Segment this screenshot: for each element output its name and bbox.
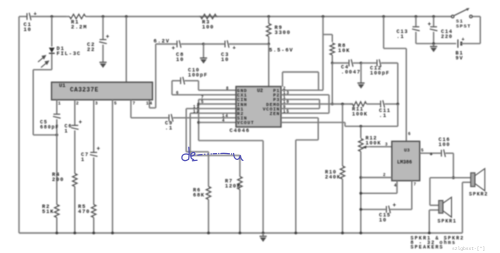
- wire C12 drop to C11 node: [397, 63, 399, 104]
- svg-text:+: +: [462, 37, 465, 43]
- wire U2 pin13 row: [281, 94, 329, 96]
- wire U2 VCOIN row: [281, 108, 320, 110]
- wire U2 pin1 row: [281, 98, 320, 100]
- wire pin7 down: [130, 100, 132, 118]
- node C4/C12/ground: [360, 62, 363, 65]
- wire to U2 CX1: [172, 94, 236, 96]
- battery B1: [458, 37, 465, 48]
- svg-text:C9.1: C9.1: [165, 121, 173, 132]
- wire wiper to U3 pin3: [370, 146, 392, 148]
- capacitor C9: [169, 114, 173, 122]
- wire supply elbow horizontal: [384, 47, 407, 49]
- wire left rail: [18, 17, 20, 234]
- wire C6 to R4: [74, 130, 76, 173]
- wire to U2 R2: [190, 112, 236, 114]
- junction pin2 ground tap: [359, 176, 362, 179]
- wire ground stem main: [262, 233, 264, 236]
- svg-text:4: 4: [222, 120, 225, 124]
- svg-text:7: 7: [201, 97, 204, 101]
- junction R10 top: [341, 103, 344, 106]
- svg-text:2: 2: [383, 174, 386, 178]
- wire C11 node down: [397, 104, 399, 126]
- svg-text:SPKR2: SPKR2: [469, 192, 488, 198]
- node C2 top: [102, 15, 105, 18]
- wire top rail R1 to S1: [90, 16, 453, 18]
- svg-text:3: 3: [95, 102, 99, 107]
- junction R2 bottom: [55, 232, 58, 235]
- wire supply drop to pin2 row: [322, 17, 324, 91]
- junction pot bottom rail: [359, 232, 362, 235]
- svg-text:+: +: [393, 202, 397, 209]
- wire D1 to pin1 node: [33, 134, 57, 136]
- capacitor C11: [381, 100, 385, 108]
- wire C2 upper: [102, 17, 104, 40]
- wire C2 lower: [102, 45, 104, 63]
- wire right step down: [317, 118, 319, 140]
- node 6V ground tap: [202, 43, 205, 46]
- wire supply to U3 pin6: [405, 48, 407, 141]
- junction R10 bottom: [341, 232, 344, 235]
- wire D1 cathode: [51, 54, 53, 70]
- op-amp U3 LM386: [392, 141, 420, 180]
- wire step down: [344, 122, 346, 126]
- node C11/C12: [396, 103, 399, 106]
- resistor R6: [206, 152, 211, 233]
- IC U2 CD4046: [236, 87, 281, 128]
- junction SPKR1 return: [428, 232, 431, 235]
- wire pin1 to C5: [56, 100, 58, 114]
- wire to bottom rail: [295, 140, 297, 233]
- node supply elbow top: [382, 15, 385, 18]
- wire C12 to drop: [381, 62, 398, 64]
- svg-text:8: 8: [226, 87, 229, 91]
- svg-text:3: 3: [385, 144, 388, 148]
- wire C7 to R5: [93, 157, 95, 204]
- resistor R11: [350, 102, 372, 107]
- photodiode D1: [49, 48, 55, 54]
- wire U2 VDD stub up: [282, 72, 284, 87]
- wire SPKR1 bottom stub: [429, 209, 438, 211]
- wire pin5 to rail: [112, 100, 114, 233]
- ground below C4 node: [357, 83, 364, 89]
- svg-text:C14220: C14220: [441, 29, 453, 40]
- wire VCOUT run to ground drop: [199, 140, 264, 142]
- wire 6V rail seg4: [229, 43, 269, 45]
- wire SPKR1 top stub: [430, 204, 439, 206]
- wire 6V hook to U1 pin: [148, 100, 150, 108]
- wire U3 pin4 down: [396, 181, 398, 194]
- svg-text:5.5-6V: 5.5-6V: [269, 48, 294, 54]
- resistor R1: [66, 14, 90, 19]
- svg-text:2: 2: [76, 102, 80, 107]
- wire ground stem right: [360, 63, 362, 83]
- wire ground drop vertical: [262, 141, 264, 233]
- junction C14 bottom: [432, 42, 435, 45]
- wire C10 loop left vertical: [171, 81, 173, 95]
- capacitor C3: [225, 40, 229, 48]
- junction DEMO row: [331, 103, 334, 106]
- svg-text:C16100: C16100: [439, 137, 451, 148]
- wire VDD loop top: [283, 71, 319, 73]
- svg-text:6: 6: [408, 133, 411, 137]
- wire right edge vertical: [479, 17, 481, 44]
- wire battery rail left: [416, 43, 456, 45]
- op-amp U1 CA3237E: [52, 82, 153, 100]
- wire C4 left seg: [332, 62, 348, 64]
- svg-text:U3: U3: [404, 148, 410, 154]
- capacitor C10: [181, 77, 185, 85]
- wire pin3 to C7: [93, 100, 95, 152]
- svg-text:11: 11: [193, 106, 200, 110]
- wire C4 to ground tap: [353, 62, 361, 64]
- junction main ground: [262, 232, 265, 235]
- svg-text:C310: C310: [221, 52, 229, 63]
- wire D1 jog horizontal: [33, 69, 52, 71]
- wire battery rail right: [461, 43, 480, 45]
- wire SPKR1 return: [428, 210, 430, 233]
- node C4 left: [331, 62, 334, 65]
- wire C16 right: [445, 152, 453, 154]
- resistor R10: [340, 104, 345, 233]
- wire pin2 to C6: [74, 100, 76, 125]
- resistor R2: [55, 204, 60, 233]
- wire R8 node down to DEMO row: [331, 63, 333, 104]
- wire pin7 to C9: [131, 117, 169, 119]
- capacitor C4: [349, 59, 353, 67]
- junction INH tap: [197, 103, 200, 106]
- potentiometer R12: [358, 126, 363, 233]
- wire D1 jog vertical: [32, 70, 34, 135]
- wire 6V hook horizontal: [149, 107, 155, 109]
- wire C14 upper: [433, 17, 435, 27]
- wire C11 to node: [385, 103, 398, 105]
- wire 6V drop: [155, 44, 157, 108]
- wire VDD loop down: [318, 72, 320, 90]
- wiper arrow R12: [362, 146, 370, 149]
- junction R7 bottom: [239, 232, 242, 235]
- wire U3 pin5 out: [420, 152, 441, 154]
- ground below 6V rail: [200, 58, 207, 64]
- wire R11 to C11: [372, 103, 380, 105]
- wire to U2 R1: [186, 108, 236, 110]
- wire 6V rail seg3: [204, 43, 225, 45]
- wire R2 jog: [190, 154, 240, 156]
- wire U2 pin2 row: [281, 89, 323, 91]
- wire to U2 INH: [199, 103, 236, 105]
- junction VCOUT tap: [197, 121, 200, 124]
- wire C5 to R2: [56, 119, 58, 204]
- svg-text:+: +: [79, 119, 83, 126]
- wire to C12: [361, 62, 376, 64]
- junction pin4 tap: [359, 192, 362, 195]
- wire to U2 CIN: [199, 98, 236, 100]
- resistor R8: [323, 35, 335, 64]
- resistor R7: [238, 155, 243, 233]
- junction R6 bottom: [207, 232, 210, 235]
- wire pin13 to ZEN loop: [328, 95, 330, 113]
- svg-text:VCOUT: VCOUT: [237, 120, 254, 126]
- wire U3 pin2: [361, 177, 392, 179]
- wire bottom rail: [19, 232, 462, 234]
- capacitor C12: [377, 59, 381, 67]
- node speakers: [452, 176, 455, 179]
- svg-text:CA3237E: CA3237E: [70, 87, 99, 94]
- svg-text:5: 5: [114, 102, 118, 107]
- speaker SPKR2: [471, 169, 485, 191]
- resistor R4: [73, 173, 78, 233]
- junction at rail: [294, 232, 297, 235]
- junction R4 bottom: [73, 232, 76, 235]
- wire supply elbow vertical: [383, 17, 385, 49]
- wire C10 loop right vertical: [198, 81, 200, 91]
- node R9 top: [267, 15, 270, 18]
- wire U2 SIN row right: [281, 117, 318, 119]
- resistor R3: [199, 14, 218, 19]
- svg-text:C4046: C4046: [230, 128, 250, 134]
- wire to C11 node bottom: [345, 125, 398, 127]
- ground main below rail: [260, 236, 267, 242]
- svg-text:12: 12: [193, 110, 200, 114]
- svg-text:7: 7: [414, 184, 417, 188]
- wire C13 upper: [415, 17, 417, 27]
- svg-text:6: 6: [176, 92, 179, 96]
- switch S1: [451, 8, 472, 18]
- svg-text:szlgbsxt-[*]: szlgbsxt-[*]: [452, 246, 485, 252]
- wire SPKR2 bottom stub: [462, 181, 470, 183]
- svg-text:14: 14: [222, 115, 229, 119]
- wire U3 pin7 down: [411, 181, 413, 210]
- node supply drop top: [322, 15, 325, 18]
- svg-text:5: 5: [201, 101, 204, 105]
- wire D1 anode: [51, 17, 53, 47]
- wire C14 lower: [433, 32, 435, 44]
- capacitor C14: [428, 21, 438, 31]
- wire SPKR2 return: [461, 182, 463, 233]
- wire R1 jog: [186, 151, 208, 153]
- node D1 top: [50, 15, 53, 18]
- wire top rail S1 to corner: [471, 16, 481, 18]
- wire R9 to U2 VDD: [268, 44, 270, 87]
- svg-text:U2: U2: [257, 88, 263, 94]
- wire C10 right seg: [185, 80, 199, 82]
- junction C15 tap: [359, 208, 362, 211]
- svg-text:C110: C110: [24, 22, 32, 33]
- svg-text:5: 5: [421, 150, 424, 154]
- wire ground stem C14: [433, 44, 435, 47]
- wire to U2 GND: [199, 89, 237, 91]
- wire pin1 to VCOIN loop: [319, 99, 321, 108]
- svg-text:SPKR1: SPKR1: [438, 219, 457, 225]
- capacitor C7: [90, 146, 101, 157]
- wire down to SPKR1: [429, 178, 431, 206]
- wire C10 left seg: [172, 80, 180, 82]
- wire output drop: [452, 153, 454, 178]
- node U1 VCC: [125, 15, 128, 18]
- capacitor C8: [172, 40, 182, 52]
- speaker SPKR1: [439, 197, 452, 217]
- capacitor C13: [412, 27, 420, 31]
- wire U2 ZEN row: [281, 112, 329, 114]
- wire R2 drop: [189, 113, 191, 155]
- wire C13 lower: [415, 32, 417, 44]
- capacitor C5: [53, 114, 61, 118]
- svg-text:14: 14: [146, 102, 153, 107]
- svg-text:4: 4: [394, 185, 397, 189]
- wire 6V rail seg2: [181, 43, 204, 45]
- junction R5 bottom: [92, 232, 95, 235]
- svg-text:C810: C810: [176, 52, 184, 63]
- resistor R9: [266, 17, 271, 45]
- ground below C2: [99, 62, 106, 68]
- resistor R5: [91, 204, 96, 233]
- wire pin7 to C15: [390, 208, 412, 210]
- blue ink scribble annotation: [182, 147, 243, 161]
- wire output left: [430, 177, 454, 179]
- wire C15 to pot vertical: [361, 208, 386, 210]
- wire R1 drop: [185, 109, 187, 152]
- svg-text:+: +: [430, 151, 434, 158]
- wire C9 to U2 SIN: [173, 117, 236, 119]
- capacitor C15: [386, 202, 396, 213]
- svg-text:+: +: [172, 45, 176, 52]
- svg-text:+: +: [428, 21, 432, 28]
- node C13 top: [415, 15, 418, 18]
- node C14 top: [432, 15, 435, 18]
- svg-text:7: 7: [133, 102, 137, 107]
- wire U2 bottom right row: [281, 121, 345, 123]
- wire top rail left of C1: [19, 16, 27, 18]
- wire to SPKR2 top: [453, 177, 470, 179]
- light arrows into D1: [38, 56, 49, 68]
- svg-text:+: +: [97, 146, 101, 153]
- svg-text:B19V: B19V: [456, 51, 464, 62]
- wire pin4 to pot vertical: [361, 192, 397, 194]
- svg-text:LM386: LM386: [397, 160, 412, 166]
- capacitor C6: [71, 119, 83, 129]
- wire top rail C1 to R1: [31, 16, 66, 18]
- junction pin5 bottom: [111, 232, 114, 235]
- wire 6V rail seg1: [156, 43, 177, 45]
- ground below C14: [430, 47, 437, 53]
- junction pot top: [359, 125, 362, 128]
- node R9 bottom / 6V rail end: [267, 43, 270, 46]
- svg-text:U1: U1: [59, 83, 65, 89]
- capacitor C1: [27, 13, 31, 21]
- svg-text:+: +: [233, 45, 237, 52]
- wire step left: [296, 139, 318, 141]
- svg-text:C222: C222: [87, 42, 95, 53]
- wire DEMO row left part: [281, 103, 353, 105]
- wire ground stem: [203, 44, 205, 58]
- node pin1/C5/R2: [55, 134, 58, 137]
- svg-text:ZEN: ZEN: [270, 111, 280, 117]
- wire CIN/INH/VCOUT vertical: [198, 99, 200, 140]
- wire U2 VCOUT out: [199, 121, 236, 123]
- svg-text:1: 1: [58, 102, 62, 107]
- capacitor C16: [441, 149, 445, 157]
- capacitor C2: [99, 34, 110, 44]
- wire U1 supply drop: [125, 17, 127, 83]
- svg-text:+: +: [106, 34, 110, 41]
